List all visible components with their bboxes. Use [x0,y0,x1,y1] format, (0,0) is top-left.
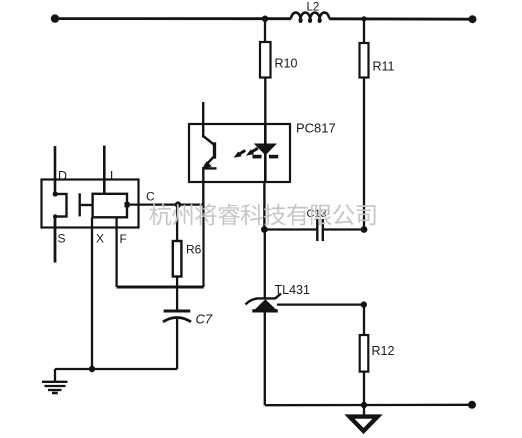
resistor R12 [360,335,369,372]
resistor R6 [173,241,182,277]
svg-text:PC817: PC817 [296,121,336,136]
svg-text:R11: R11 [373,60,395,74]
resistor R10 [260,42,271,78]
capacitor C13 horizontal branch left wire [264,228,317,230]
wire lead D [54,146,57,195]
wire R12 top lead [363,305,365,335]
wire F loop bottom [117,286,204,289]
transistor Q1 internal MOSFET [53,191,93,218]
node junction R10 / top rail [262,16,268,22]
wire lead S stub [54,217,57,263]
op-amp U1 regulator IC box [42,180,139,228]
capacitor C7 curved plate [163,318,191,322]
capacitor C13 plates [316,219,318,241]
inductor L2 [291,13,329,19]
wire bottom rail [265,404,472,407]
wire TL431 cathode lead [264,230,266,298]
node top-right terminal [469,15,477,23]
wire R6 top lead [176,205,178,241]
svg-text:D: D [58,169,67,183]
svg-text:L: L [110,169,117,183]
wire node C horizontal [127,203,204,205]
wire TL431 ref to divider node [277,303,364,305]
wire PC817 collector stub [202,102,204,138]
wire lead L [103,146,106,195]
wire R6 bottom to C7 [176,277,178,312]
node junction R12 / bottom rail [361,402,367,408]
node junction R11 / top rail [361,16,366,21]
op-amp U2 PC817 optocoupler box [189,124,290,182]
node bottom-right terminal [468,401,476,409]
transistor Q1 gate bar [78,193,80,216]
node junction R6 top [175,201,181,207]
wire F loop right side [202,205,204,287]
transistor Q PC817 phototransistor [202,136,217,170]
wire top rail right segment [329,17,473,20]
svg-text:R6: R6 [186,243,202,257]
wire lead X down [91,217,93,369]
node junction ref/divider [361,301,367,307]
wire LED through PC817 [264,124,267,182]
diode U3 TL431 shunt regulator [246,294,282,311]
resistor R11 [360,43,369,78]
node junction block output [125,202,130,207]
wire C7 bottom lead [176,318,178,369]
wire C13 right to R11 line [323,228,364,230]
wire top rail left segment [54,17,291,20]
node junction C13 left [261,226,268,233]
wire R11 top lead [363,19,365,43]
ground right (hollow triangle) [350,417,378,431]
wire R10 top lead [264,19,266,42]
svg-text:C7: C7 [196,312,213,327]
svg-text:C: C [146,190,155,204]
wire TL431 anode down [264,311,266,405]
svg-text:R10: R10 [275,57,298,71]
node inner control block [93,194,127,218]
svg-text:R12: R12 [372,344,395,358]
capacitor C7 top plate [164,310,191,313]
node light arrow 2 [251,148,258,152]
diode D PC817 LED [254,144,277,156]
wire ground drop [54,369,56,382]
svg-text:TL431: TL431 [275,283,310,297]
wire lead F down [115,217,117,287]
wire LED cathode bar [253,155,262,159]
wire R11 bottom to C13 node [363,78,365,230]
wire R10 bottom to PC817 LED [264,78,266,125]
node top-left terminal [51,14,59,22]
node junction C13 right [361,226,368,233]
node junction X / ground rail [89,366,95,372]
svg-text:F: F [120,232,127,246]
node light arrow 1 [234,148,258,157]
svg-text:L2: L2 [307,2,320,14]
svg-text:X: X [96,232,104,246]
svg-text:S: S [58,232,66,246]
node watermark 杭州将睿科技有限公司 [149,204,375,226]
wire R12 bottom lead [363,372,365,417]
wire PC817 emitter down to node C [202,167,204,205]
wire LED bottom to C13 node [263,182,265,230]
wire ground rail left [55,368,177,370]
ground left (earth bars) [42,382,68,393]
